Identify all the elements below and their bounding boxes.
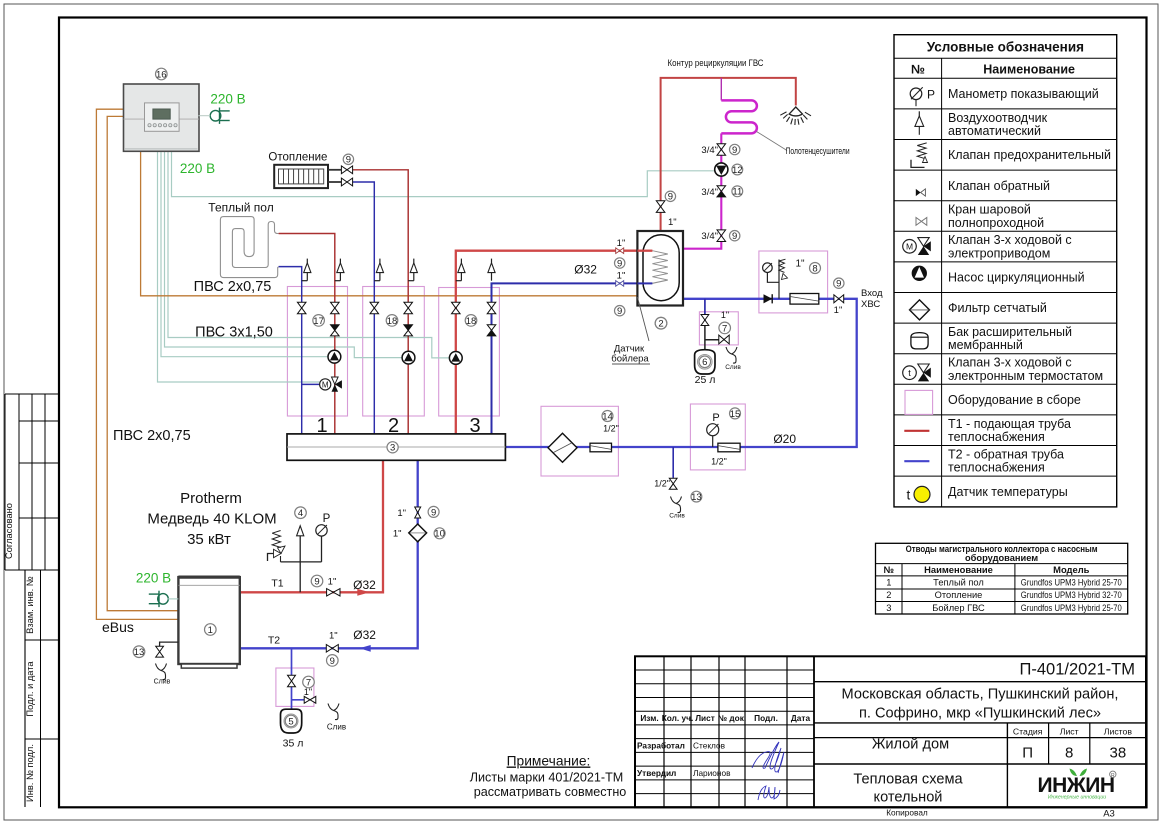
svg-text:электронным термостатом: электронным термостатом bbox=[948, 369, 1103, 383]
svg-text:электроприводом: электроприводом bbox=[948, 246, 1050, 260]
svg-text:Отопление: Отопление bbox=[268, 152, 327, 164]
svg-text:Насос циркуляционный: Насос циркуляционный bbox=[948, 271, 1085, 285]
svg-text:3: 3 bbox=[886, 603, 891, 613]
svg-text:Фильтр сетчатый: Фильтр сетчатый bbox=[948, 301, 1047, 315]
svg-text:Вход: Вход bbox=[861, 288, 883, 299]
svg-text:1": 1" bbox=[617, 271, 626, 282]
svg-text:2: 2 bbox=[388, 415, 399, 437]
svg-text:1: 1 bbox=[316, 415, 327, 437]
svg-text:Слив: Слив bbox=[154, 679, 171, 686]
svg-text:М: М bbox=[322, 381, 329, 390]
svg-text:Лист: Лист bbox=[695, 713, 715, 723]
svg-text:1": 1" bbox=[721, 310, 729, 320]
svg-text:Копировал: Копировал bbox=[886, 808, 928, 818]
svg-text:12: 12 bbox=[732, 165, 743, 176]
svg-text:Модель: Модель bbox=[1053, 564, 1090, 575]
svg-text:ПВС 3х1,50: ПВС 3х1,50 bbox=[195, 325, 273, 341]
svg-text:Отопление: Отопление bbox=[935, 590, 983, 600]
svg-text:Утвердил: Утвердил bbox=[637, 768, 676, 778]
svg-text:38: 38 bbox=[1110, 745, 1127, 762]
svg-text:3: 3 bbox=[390, 443, 395, 454]
svg-text:9: 9 bbox=[668, 192, 673, 203]
svg-text:1": 1" bbox=[393, 528, 402, 539]
svg-text:Полотенцесушители: Полотенцесушители bbox=[786, 146, 850, 157]
svg-text:ХВС: ХВС bbox=[861, 299, 880, 310]
svg-text:5: 5 bbox=[288, 716, 293, 727]
svg-text:Теплый пол: Теплый пол bbox=[208, 201, 273, 215]
svg-text:Листы марки 401/2021-ТМ: Листы марки 401/2021-ТМ bbox=[470, 770, 624, 784]
svg-text:9: 9 bbox=[346, 155, 351, 166]
svg-text:t: t bbox=[907, 488, 911, 503]
svg-text:Оборудование в сборе: Оборудование в сборе bbox=[948, 393, 1081, 407]
svg-text:Датчик температуры: Датчик температуры bbox=[948, 485, 1068, 499]
svg-text:18: 18 bbox=[387, 316, 398, 327]
svg-text:10: 10 bbox=[434, 529, 445, 540]
svg-text:Т2 - обратная труба: Т2 - обратная труба bbox=[948, 447, 1064, 461]
svg-text:P: P bbox=[323, 513, 331, 525]
svg-text:1": 1" bbox=[329, 631, 338, 642]
svg-text:2: 2 bbox=[886, 590, 891, 600]
svg-text:П-401/2021-ТМ: П-401/2021-ТМ bbox=[1020, 661, 1136, 679]
svg-text:теплоснабжения: теплоснабжения bbox=[948, 430, 1045, 444]
svg-text:оборудованием: оборудованием bbox=[965, 553, 1038, 563]
svg-text:4: 4 bbox=[298, 508, 303, 519]
svg-text:P: P bbox=[712, 412, 719, 424]
svg-text:Лист: Лист bbox=[1060, 726, 1079, 736]
svg-text:9: 9 bbox=[732, 145, 737, 156]
svg-text:1/2": 1/2" bbox=[603, 424, 619, 434]
svg-text:Теплый пол: Теплый пол bbox=[933, 578, 984, 588]
svg-text:Разработал: Разработал bbox=[637, 741, 685, 751]
svg-text:Кол. уч.: Кол. уч. bbox=[662, 713, 694, 723]
svg-text:Ø32: Ø32 bbox=[574, 263, 597, 277]
svg-text:Воздухоотводчик: Воздухоотводчик bbox=[948, 111, 1048, 125]
svg-text:Т1 - подающая труба: Т1 - подающая труба bbox=[948, 417, 1071, 431]
svg-text:17: 17 bbox=[313, 316, 324, 327]
svg-text:Тепловая схема: Тепловая схема bbox=[853, 772, 963, 788]
svg-text:мембранный: мембранный bbox=[948, 338, 1023, 352]
svg-text:1": 1" bbox=[795, 259, 805, 270]
svg-text:Ø32: Ø32 bbox=[353, 578, 376, 592]
svg-text:Protherm: Protherm bbox=[180, 490, 242, 507]
svg-text:Grundfos UPM3 Hybrid 25-70: Grundfos UPM3 Hybrid 25-70 bbox=[1021, 578, 1122, 588]
svg-text:Подл.: Подл. bbox=[754, 713, 778, 723]
svg-text:Ларионов: Ларионов bbox=[693, 768, 731, 778]
svg-text:Медведь 40 KLOM: Медведь 40 KLOM bbox=[147, 511, 276, 528]
svg-text:Слив: Слив bbox=[327, 723, 346, 732]
svg-text:35 кВт: 35 кВт bbox=[187, 531, 231, 548]
svg-text:рассматривать совместно: рассматривать совместно bbox=[474, 785, 627, 799]
svg-text:Согласовано: Согласовано bbox=[4, 503, 14, 559]
svg-text:9: 9 bbox=[314, 576, 319, 587]
svg-text:9: 9 bbox=[431, 507, 436, 518]
svg-text:Т1: Т1 bbox=[271, 578, 283, 590]
svg-text:1/2": 1/2" bbox=[711, 457, 727, 467]
svg-text:Наименование: Наименование bbox=[983, 62, 1075, 76]
svg-text:8: 8 bbox=[812, 263, 817, 274]
svg-text:М: М bbox=[906, 242, 913, 252]
svg-text:18: 18 bbox=[466, 316, 477, 327]
svg-text:1: 1 bbox=[886, 578, 891, 588]
svg-text:Бойлер ГВС: Бойлер ГВС bbox=[932, 603, 985, 613]
svg-text:220 В: 220 В bbox=[210, 92, 245, 107]
svg-text:Клапан 3-х ходовой с: Клапан 3-х ходовой с bbox=[948, 356, 1072, 370]
svg-text:1": 1" bbox=[668, 217, 677, 228]
svg-text:№: № bbox=[884, 564, 895, 575]
svg-text:Дата: Дата bbox=[791, 713, 811, 723]
svg-text:автоматический: автоматический bbox=[948, 124, 1041, 138]
svg-text:Слив: Слив bbox=[725, 364, 741, 371]
svg-text:8: 8 bbox=[1065, 745, 1073, 762]
svg-text:Клапан 3-х ходовой с: Клапан 3-х ходовой с bbox=[948, 233, 1072, 247]
svg-text:Кран шаровой: Кран шаровой bbox=[948, 203, 1031, 217]
svg-text:3/4": 3/4" bbox=[701, 145, 718, 156]
svg-text:Листов: Листов bbox=[1104, 726, 1133, 736]
svg-text:Ø32: Ø32 bbox=[353, 628, 376, 642]
svg-text:9: 9 bbox=[617, 258, 622, 269]
svg-text:Бак расширительный: Бак расширительный bbox=[948, 325, 1072, 339]
svg-text:А3: А3 bbox=[1103, 809, 1115, 820]
svg-text:Инв. № подл.: Инв. № подл. bbox=[25, 744, 35, 802]
svg-text:ПВС 2х0,75: ПВС 2х0,75 bbox=[194, 279, 272, 295]
svg-text:9: 9 bbox=[732, 231, 737, 242]
svg-text:R: R bbox=[1111, 773, 1115, 779]
svg-text:1/2": 1/2" bbox=[654, 479, 670, 489]
svg-text:Московская область, Пушкинский: Московская область, Пушкинский район, bbox=[842, 686, 1119, 702]
svg-text:Контур рециркуляции ГВС: Контур рециркуляции ГВС bbox=[668, 58, 764, 69]
svg-text:1": 1" bbox=[328, 577, 337, 588]
svg-text:Стеклов: Стеклов bbox=[693, 741, 726, 751]
svg-text:Взам. инв. №: Взам. инв. № bbox=[25, 576, 35, 634]
svg-text:Примечание:: Примечание: bbox=[507, 754, 591, 769]
svg-text:бойлера: бойлера bbox=[611, 354, 649, 365]
svg-text:котельной: котельной bbox=[874, 790, 943, 806]
svg-text:3: 3 bbox=[469, 415, 480, 437]
svg-text:2: 2 bbox=[658, 319, 663, 330]
svg-text:Grundfos UPM3 Hybrid 25-70: Grundfos UPM3 Hybrid 25-70 bbox=[1021, 603, 1122, 613]
svg-text:Ø20: Ø20 bbox=[773, 432, 796, 446]
svg-text:Т2: Т2 bbox=[268, 635, 280, 647]
svg-text:№ док.: № док. bbox=[718, 713, 746, 723]
svg-text:Стадия: Стадия bbox=[1013, 726, 1043, 736]
svg-text:9: 9 bbox=[330, 656, 335, 667]
svg-text:Клапан обратный: Клапан обратный bbox=[948, 179, 1050, 193]
svg-text:Слив: Слив bbox=[669, 513, 685, 520]
svg-text:14: 14 bbox=[602, 411, 613, 422]
svg-text:Подл. и дата: Подл. и дата bbox=[25, 661, 35, 717]
svg-text:9: 9 bbox=[617, 306, 622, 317]
svg-text:3/4": 3/4" bbox=[701, 187, 718, 198]
svg-text:16: 16 bbox=[156, 69, 167, 80]
svg-text:Изм.: Изм. bbox=[640, 713, 658, 723]
svg-text:9: 9 bbox=[836, 279, 841, 290]
svg-text:1": 1" bbox=[304, 687, 312, 697]
svg-text:7: 7 bbox=[722, 323, 727, 334]
svg-text:ПВС 2х0,75: ПВС 2х0,75 bbox=[113, 428, 191, 444]
svg-text:220 В: 220 В bbox=[136, 571, 171, 586]
svg-text:Клапан предохранительный: Клапан предохранительный bbox=[948, 148, 1111, 162]
svg-text:1": 1" bbox=[834, 305, 843, 316]
svg-text:1": 1" bbox=[617, 238, 626, 249]
svg-text:eBus: eBus bbox=[102, 619, 134, 635]
svg-text:6: 6 bbox=[702, 357, 707, 368]
svg-text:п. Софрино, мкр «Пушкинский ле: п. Софрино, мкр «Пушкинский лес» bbox=[859, 705, 1101, 721]
svg-text:Условные обозначения: Условные обозначения bbox=[927, 40, 1084, 55]
svg-text:теплоснабжения: теплоснабжения bbox=[948, 461, 1045, 475]
svg-text:Манометр показывающий: Манометр показывающий bbox=[948, 87, 1099, 101]
svg-text:Р: Р bbox=[927, 87, 935, 101]
svg-text:13: 13 bbox=[691, 492, 702, 503]
svg-text:полнопроходной: полнопроходной bbox=[948, 216, 1044, 230]
svg-text:№: № bbox=[911, 62, 925, 76]
svg-text:13: 13 bbox=[134, 647, 145, 658]
svg-text:П: П bbox=[1022, 745, 1033, 762]
svg-text:3/4": 3/4" bbox=[701, 231, 718, 242]
svg-text:Наименование: Наименование bbox=[924, 564, 993, 575]
svg-text:Grundfos UPM3 Hybrid 32-70: Grundfos UPM3 Hybrid 32-70 bbox=[1021, 590, 1122, 600]
svg-text:Жилой дом: Жилой дом bbox=[872, 737, 949, 753]
svg-text:25 л: 25 л bbox=[695, 374, 716, 386]
svg-text:1": 1" bbox=[397, 508, 406, 519]
svg-text:1: 1 bbox=[208, 625, 213, 636]
svg-text:15: 15 bbox=[730, 409, 741, 420]
svg-text:35 л: 35 л bbox=[283, 738, 304, 750]
svg-text:11: 11 bbox=[732, 187, 742, 198]
svg-text:220 В: 220 В bbox=[180, 161, 215, 176]
svg-text:Инженерные инновации: Инженерные инновации bbox=[1048, 795, 1106, 801]
